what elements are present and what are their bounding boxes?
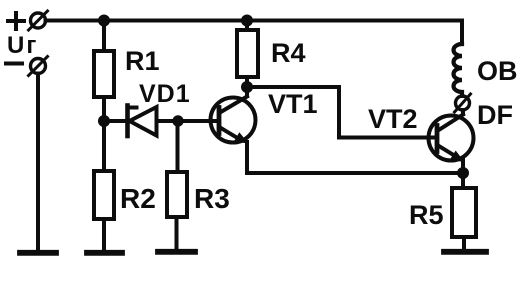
svg-text:Uг: Uг: [7, 32, 38, 59]
wire VT2 emitter to node E: [461, 160, 465, 188]
node B (VD1/R3/VT1-base junction): [172, 115, 183, 126]
node F (top rail / R1): [98, 15, 110, 27]
ground (below R5): [444, 249, 486, 255]
diode VD1 (zener): [128, 106, 157, 137]
node A (R1/R2/VD1 junction): [98, 115, 110, 127]
svg-text:R1: R1: [125, 46, 160, 76]
wire R5 bottom: [462, 237, 466, 249]
wire coil to DF terminal: [460, 92, 464, 96]
svg-text:R5: R5: [409, 200, 444, 230]
ground (below R3): [158, 249, 195, 255]
svg-text:VD1: VD1: [139, 80, 191, 108]
ground (left, input): [20, 250, 56, 256]
node C (top rail / R4): [241, 15, 253, 27]
wire R1 top: [102, 21, 106, 52]
resistor R5: [452, 188, 476, 237]
inductor OB (excitation winding): [454, 44, 463, 92]
wire top rail corner down to coil: [460, 21, 464, 45]
wire R3 bottom: [175, 217, 179, 249]
resistor R2: [94, 171, 114, 219]
wire node A to VD1: [104, 119, 125, 123]
wire VT1 emitter down and right to node E: [247, 142, 463, 173]
svg-text:R4: R4: [271, 38, 306, 68]
node E (emitters / R5 junction): [457, 167, 469, 179]
wire R1 bottom to node A: [102, 97, 106, 171]
terminal minus (input -): [6, 57, 48, 76]
wire R2 bottom: [102, 219, 106, 250]
svg-text:DF: DF: [477, 100, 513, 130]
resistor R1: [94, 51, 114, 97]
wire VD1 to VT1 base: [157, 119, 217, 123]
svg-text:R2: R2: [120, 183, 156, 214]
resistor R4: [237, 30, 258, 77]
node D (VT1 collector junction): [241, 81, 253, 93]
svg-text:R3: R3: [194, 183, 230, 214]
terminal plus (input +): [8, 11, 48, 30]
svg-text:VT2: VT2: [368, 104, 418, 134]
terminal DF (circle with slash): [455, 94, 471, 112]
resistor R3: [167, 172, 187, 217]
svg-text:VT1: VT1: [268, 89, 318, 119]
wire R4 bottom to node D: [245, 77, 249, 87]
ground (below R2): [87, 250, 122, 256]
wire R4 top: [245, 21, 249, 31]
svg-text:OB: OB: [477, 56, 518, 86]
wire minus terminal to ground: [36, 74, 40, 251]
wire top supply rail: [46, 19, 463, 23]
wire node D to VT2 base (over and down): [247, 87, 437, 138]
transistor VT1: [211, 87, 256, 143]
wire node B to R3: [176, 121, 180, 172]
transistor VT2: [429, 110, 474, 162]
